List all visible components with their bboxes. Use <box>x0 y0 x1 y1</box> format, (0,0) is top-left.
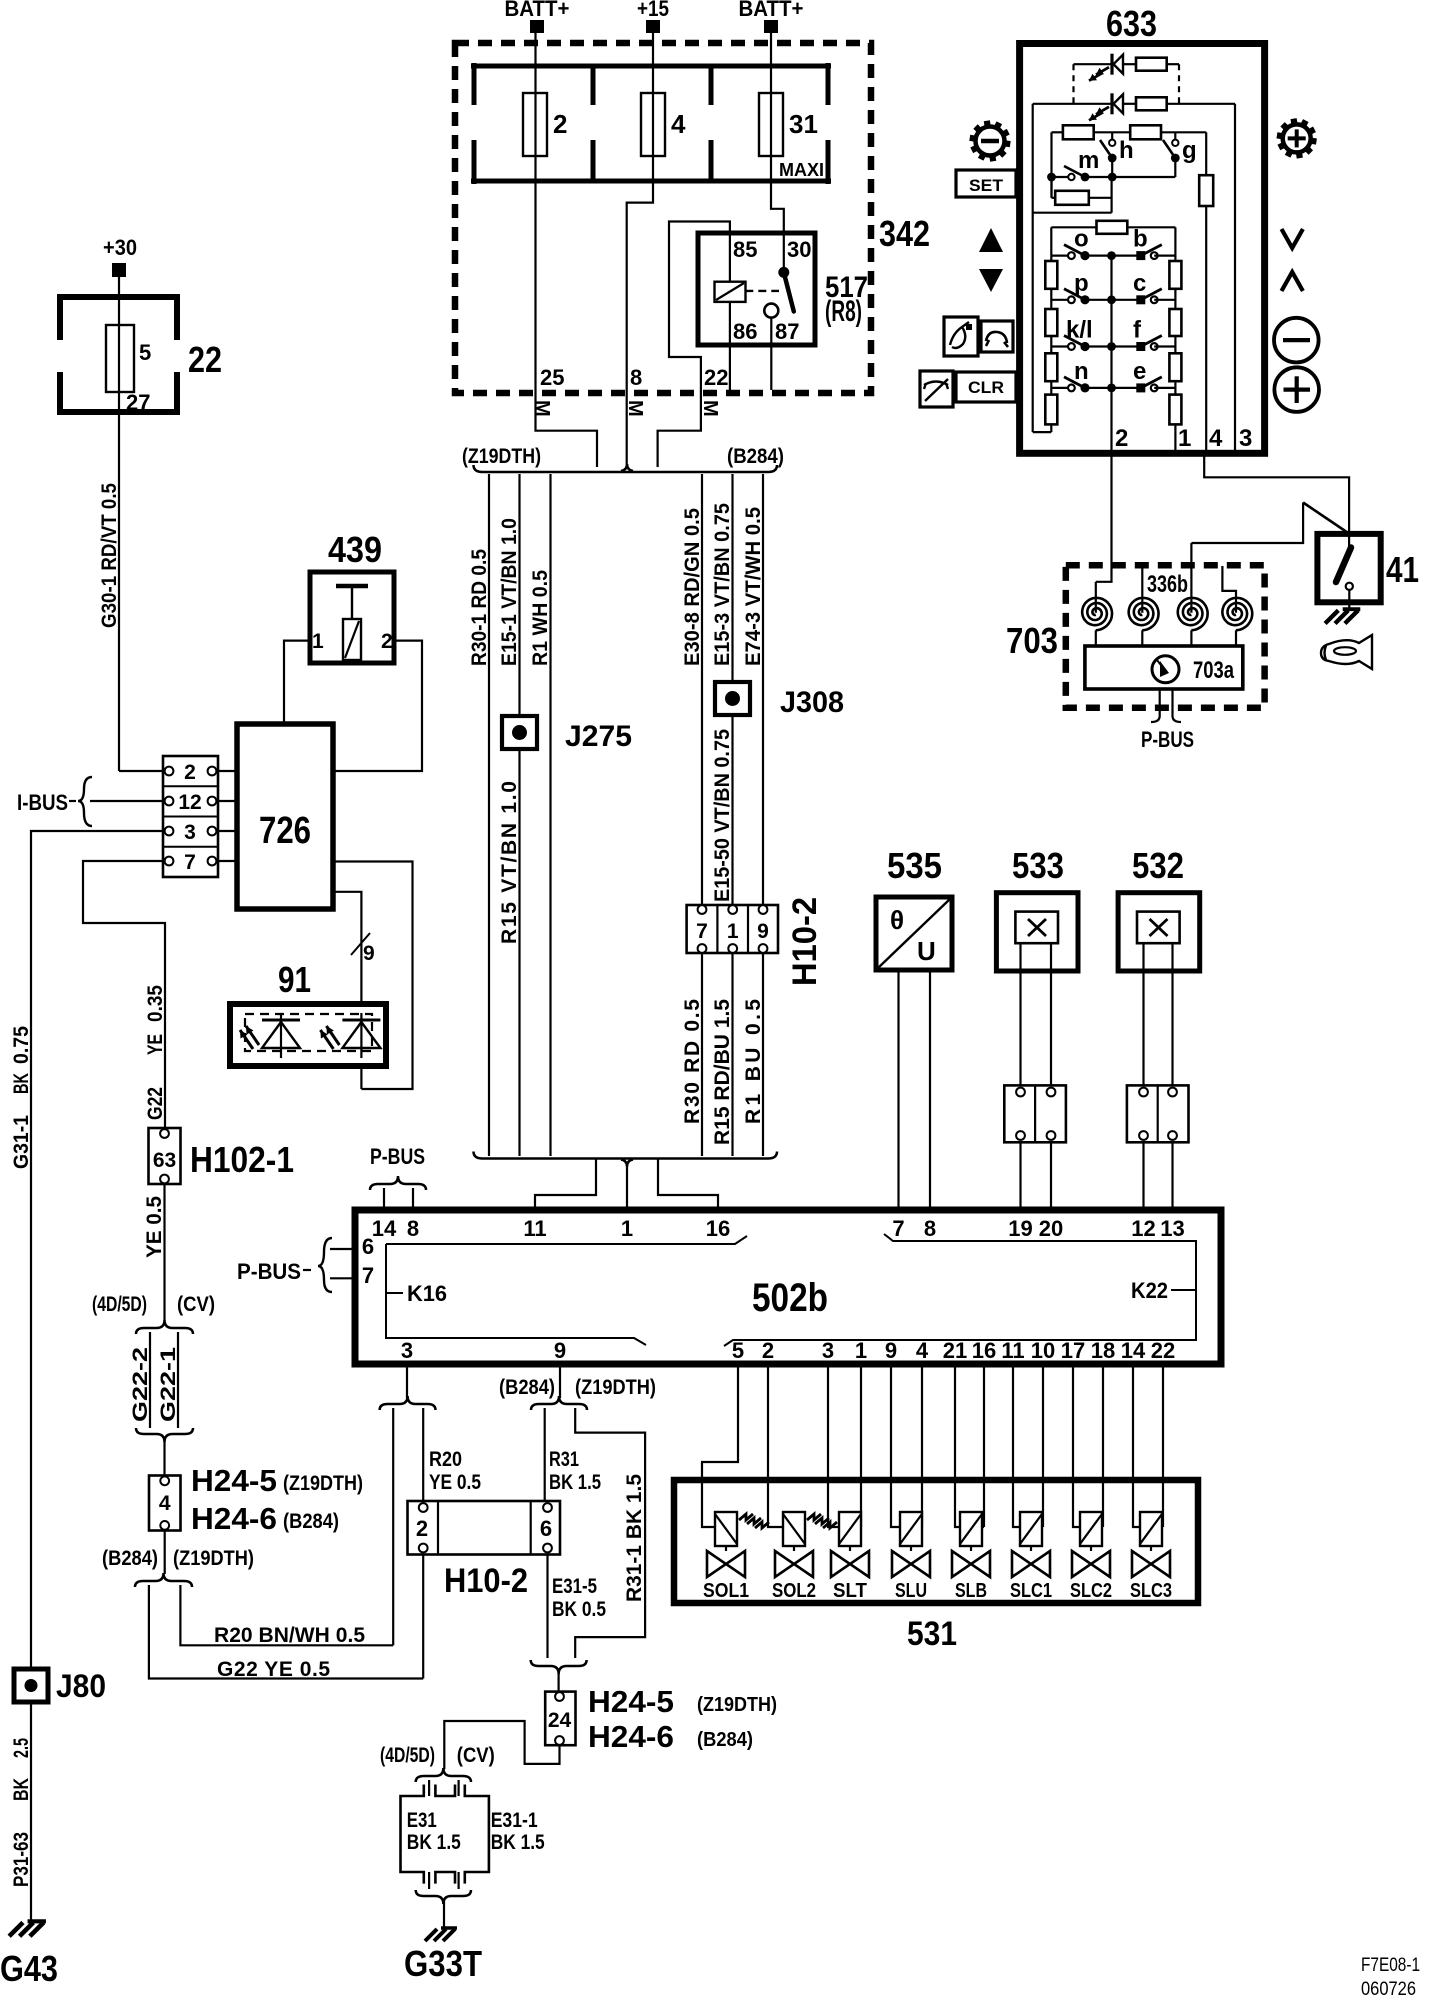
svg-text:533: 533 <box>1012 845 1064 886</box>
horn switch 41 <box>1317 534 1380 602</box>
svg-text:1: 1 <box>621 1216 633 1241</box>
svg-text:SLU: SLU <box>895 1580 927 1602</box>
svg-text:J80: J80 <box>56 1668 106 1704</box>
wires 535 to pins 7,8 <box>897 970 899 1210</box>
svg-text:22: 22 <box>1151 1338 1175 1363</box>
svg-text:BK 0.5: BK 0.5 <box>552 1598 606 1621</box>
dashed links between LED rows <box>1072 64 1074 104</box>
svg-text:12: 12 <box>178 791 201 814</box>
svg-text:24: 24 <box>548 1709 572 1732</box>
svg-text:G31-1: G31-1 <box>10 1115 33 1169</box>
svg-text:R30 RD 0.5: R30 RD 0.5 <box>681 999 704 1124</box>
junction J80 <box>14 1669 48 1702</box>
svg-text:(B284): (B284) <box>499 1376 555 1399</box>
svg-text:SLC2: SLC2 <box>1070 1580 1112 1602</box>
fuse 31 MAXI <box>759 93 783 156</box>
bus to 502b pin 11 <box>535 1159 596 1211</box>
svg-text:87: 87 <box>775 319 799 344</box>
svg-text:BATT+: BATT+ <box>739 0 804 21</box>
svg-text:0.75: 0.75 <box>10 1026 33 1064</box>
svg-text:BK 1.5: BK 1.5 <box>549 1471 601 1494</box>
switch o <box>1051 255 1068 257</box>
svg-text:J308: J308 <box>780 686 844 719</box>
circle plus <box>1274 367 1319 412</box>
svg-text:(CV): (CV) <box>457 1744 495 1767</box>
svg-text:(Z19DTH): (Z19DTH) <box>575 1376 656 1399</box>
svg-text:2: 2 <box>1115 425 1128 452</box>
labels (B284)/(Z19DTH) below pin 4 <box>164 1531 166 1575</box>
svg-text:R1 WH 0.5: R1 WH 0.5 <box>529 570 552 666</box>
svg-text:P31-63: P31-63 <box>10 1832 33 1887</box>
antenna symbol in 439 <box>336 584 368 589</box>
svg-text:3: 3 <box>184 821 196 844</box>
wire 439 pin2 to 726 right <box>333 641 422 771</box>
right rail / resistor to pin 4 <box>1205 132 1207 175</box>
svg-text:M: M <box>531 400 553 417</box>
svg-text:17: 17 <box>1061 1338 1085 1363</box>
spiral 3 <box>1178 598 1208 630</box>
svg-text:1: 1 <box>312 630 324 653</box>
right resistor ladder <box>1169 261 1181 289</box>
svg-text:12: 12 <box>1131 1216 1155 1241</box>
svg-text:(Z19DTH): (Z19DTH) <box>173 1547 254 1570</box>
relay coil <box>729 233 731 282</box>
svg-text:P-BUS: P-BUS <box>1141 727 1194 752</box>
ground G33T <box>441 1926 457 1930</box>
svg-text:2: 2 <box>762 1338 774 1363</box>
502b inner outline left (K16) <box>386 1236 747 1244</box>
relay 85 wire to pin 22 <box>658 222 730 468</box>
svg-text:G30-1 RD/VT 0.5: G30-1 RD/VT 0.5 <box>98 483 121 628</box>
svg-text:22: 22 <box>704 365 728 390</box>
svg-text:1: 1 <box>727 920 739 943</box>
svg-text:M: M <box>699 400 721 417</box>
svg-text:2.5: 2.5 <box>10 1738 33 1758</box>
svg-text:0.35: 0.35 <box>144 985 167 1022</box>
wire 91 bottom continues <box>360 1066 362 1089</box>
svg-text:21: 21 <box>943 1338 967 1363</box>
connector H10-2 (pins 7,1,9) <box>687 905 778 953</box>
solenoid SLC3 <box>1133 1364 1140 1527</box>
502b inner outline right (K22) <box>724 1234 1196 1346</box>
svg-text:R30-1 RD 0.5: R30-1 RD 0.5 <box>468 549 491 666</box>
svg-text:(4D/5D): (4D/5D) <box>380 1744 435 1767</box>
svg-text:(B284): (B284) <box>727 445 784 468</box>
wires J275 group <box>488 474 490 1156</box>
svg-text:E31-1: E31-1 <box>491 1809 538 1832</box>
svg-text:9: 9 <box>363 942 375 965</box>
svg-text:(B284): (B284) <box>102 1547 158 1570</box>
svg-text:R15 VT/BN 1.0: R15 VT/BN 1.0 <box>498 781 521 944</box>
svg-text:41: 41 <box>1386 549 1419 590</box>
svg-text:θ: θ <box>890 905 904 935</box>
fuse 5 in box 22 <box>118 297 120 325</box>
svg-text:(CV): (CV) <box>177 1293 215 1316</box>
svg-text:9: 9 <box>554 1338 566 1363</box>
svg-text:19: 19 <box>1008 1216 1032 1241</box>
svg-text:11: 11 <box>523 1216 546 1241</box>
transmission control module 502b <box>355 1210 1221 1364</box>
m-section resistor row <box>1052 131 1063 133</box>
left rail of m-section <box>1050 132 1052 198</box>
svg-text:b: b <box>1133 226 1148 253</box>
pin 3 stub and split <box>406 1364 408 1398</box>
svg-text:f: f <box>1133 317 1142 344</box>
icon gear minus <box>1004 143 1010 144</box>
svg-text:SET: SET <box>969 176 1004 195</box>
svg-text:c: c <box>1133 270 1146 297</box>
svg-text:G22-1: G22-1 <box>157 1347 180 1422</box>
connector block of 726 (pins 2,12,3,7) <box>163 756 218 877</box>
wire fuse31 to relay pin 30 <box>771 156 784 233</box>
svg-text:E15-1 VT/BN 1.0: E15-1 VT/BN 1.0 <box>498 518 521 666</box>
svg-text:25: 25 <box>540 365 564 390</box>
svg-text:n: n <box>1074 358 1089 385</box>
component box 22 (fuse holder) <box>57 294 180 300</box>
svg-text:BK: BK <box>10 1778 33 1801</box>
svg-text:P-BUS: P-BUS <box>237 1259 301 1284</box>
svg-text:H24-5: H24-5 <box>588 1684 674 1719</box>
svg-text:85: 85 <box>733 237 757 262</box>
svg-text:703a: 703a <box>1193 657 1235 684</box>
svg-text:531: 531 <box>907 1615 957 1653</box>
wire YE 0.5 below H102-1 <box>163 1184 165 1320</box>
svg-text:(Z19DTH): (Z19DTH) <box>697 1694 777 1716</box>
svg-text:+30: +30 <box>103 235 137 260</box>
svg-text:2: 2 <box>381 630 393 653</box>
wire R20 to H24 (left of split) <box>392 1408 394 1645</box>
svg-text:U: U <box>917 936 936 966</box>
wire fuse2 to pin 25 <box>534 156 536 181</box>
wire R20 YE 0.5 to H10-2 <box>422 1408 424 1503</box>
chevron up <box>1282 272 1303 291</box>
wire to pin 2 of 726 connector <box>119 770 163 772</box>
svg-text:18: 18 <box>1091 1338 1115 1363</box>
svg-text:R31: R31 <box>549 1448 579 1471</box>
svg-text:63: 63 <box>153 1149 176 1172</box>
svg-text:16: 16 <box>706 1216 730 1241</box>
keypad center rail (pin 2) <box>1110 256 1112 450</box>
icon gear plus <box>1310 141 1316 142</box>
solenoid pack 531 <box>674 1480 1198 1603</box>
switch h <box>1111 132 1113 139</box>
wire G22-1 <box>177 1332 179 1428</box>
relay contact 30/87 <box>778 267 789 278</box>
circle minus <box>1274 318 1319 363</box>
svg-text:P-BUS: P-BUS <box>370 1144 425 1169</box>
svg-text:2: 2 <box>416 1516 428 1541</box>
keypad matrix feed resistor <box>1051 226 1096 228</box>
svg-text:BATT+: BATT+ <box>505 0 570 21</box>
svg-text:8: 8 <box>924 1216 936 1241</box>
svg-text:7: 7 <box>184 851 196 874</box>
wire +30 to fuse box 22 <box>118 277 120 294</box>
svg-text:I-BUS: I-BUS <box>17 790 68 815</box>
svg-text:5: 5 <box>732 1338 744 1363</box>
svg-text:H24-6: H24-6 <box>588 1719 674 1754</box>
svg-text:13: 13 <box>1160 1216 1184 1241</box>
svg-text:YE: YE <box>144 1034 167 1055</box>
svg-text:+15: +15 <box>637 0 669 21</box>
wire I-BUS to pin 12 <box>90 800 165 802</box>
svg-text:g: g <box>1182 137 1197 164</box>
left resistor ladder <box>1045 261 1057 289</box>
wires J308 group <box>701 474 703 1156</box>
chevron V <box>1282 229 1303 248</box>
svg-text:YE 0.5: YE 0.5 <box>429 1471 481 1494</box>
svg-text:H10-2: H10-2 <box>444 1562 528 1600</box>
svg-text:3: 3 <box>1239 425 1252 452</box>
svg-text:535: 535 <box>887 845 942 886</box>
svg-text:(Z19DTH): (Z19DTH) <box>462 445 541 468</box>
svg-text:14: 14 <box>1121 1338 1146 1363</box>
633 pin 4 wire to horn switch 41 <box>1204 453 1349 548</box>
wire fuse4 to pin 8 <box>627 156 653 464</box>
633 inner frame <box>1032 104 1034 432</box>
svg-text:MAXI: MAXI <box>779 160 824 180</box>
P-BUS twisted pair below 703a <box>1159 689 1161 716</box>
ground below 41 <box>1343 607 1361 611</box>
svg-text:R20: R20 <box>429 1448 462 1471</box>
clock spring housing 703 (dashed) <box>1066 565 1265 708</box>
dashed housing 342 <box>455 43 871 393</box>
wire G22-2 <box>149 1332 151 1428</box>
switch n <box>1051 387 1068 389</box>
svg-text:30: 30 <box>787 237 811 262</box>
switch e <box>1112 387 1141 389</box>
spiral 1 <box>1082 598 1112 630</box>
SET button <box>956 170 1016 197</box>
arrow up <box>979 228 1003 252</box>
split brace below H102-1 <box>136 1320 193 1334</box>
solenoid SOL2 <box>768 1364 783 1527</box>
svg-text:(4D/5D): (4D/5D) <box>92 1293 147 1316</box>
switch p <box>1051 299 1068 301</box>
svg-text:8: 8 <box>630 365 642 390</box>
svg-text:7: 7 <box>892 1216 904 1241</box>
svg-text:4: 4 <box>159 1492 171 1515</box>
wire pin 7 to G22 YE 0.35 <box>83 861 165 1128</box>
m-section lower resistor <box>1050 177 1052 198</box>
svg-text:R1 BU 0.5: R1 BU 0.5 <box>742 999 765 1124</box>
wire E31-5 BK 0.5 <box>546 1555 548 1659</box>
svg-text:k/l: k/l <box>1066 317 1093 344</box>
module 703a <box>1085 646 1243 689</box>
svg-text:h: h <box>1119 137 1134 164</box>
connector H24-5/H24-6 pin 24 <box>545 1692 575 1746</box>
svg-text:BK 1.5: BK 1.5 <box>491 1831 545 1854</box>
connector H102-1 pin 63 <box>149 1128 181 1184</box>
svg-text:2: 2 <box>184 761 196 784</box>
svg-text:CLR: CLR <box>968 378 1004 397</box>
svg-text:4: 4 <box>916 1338 929 1363</box>
merge brace above H24 connector <box>136 1428 193 1442</box>
svg-text:7: 7 <box>696 920 708 943</box>
svg-text:8: 8 <box>407 1216 419 1241</box>
svg-text:E15-3 VT/BN 0.75: E15-3 VT/BN 0.75 <box>711 503 734 666</box>
wire R20 BN/WH 0.5 <box>180 1585 393 1645</box>
wire G22 YE 0.5 <box>149 1585 423 1679</box>
svg-text:9: 9 <box>757 920 769 943</box>
svg-text:86: 86 <box>733 319 757 344</box>
svg-text:E15-50 VT/BN 0.75: E15-50 VT/BN 0.75 <box>711 729 734 902</box>
pin 9 stub and split <box>559 1364 561 1398</box>
wire below H10-2 pin2 to G22 <box>422 1555 424 1679</box>
phone icon 2 (handset) <box>981 321 1013 352</box>
spiral 4 <box>1222 598 1252 630</box>
control module 726 <box>237 724 333 909</box>
merge brace to ground <box>416 1890 471 1904</box>
svg-text:3: 3 <box>401 1338 413 1363</box>
terminal +30 <box>112 263 126 277</box>
solenoid SLC2 <box>1073 1364 1080 1527</box>
solenoid SLC1 <box>1013 1364 1020 1527</box>
svg-text:(Z19DTH): (Z19DTH) <box>283 1472 363 1495</box>
svg-text:p: p <box>1074 270 1089 297</box>
merge brace above pin 24 <box>531 1660 587 1674</box>
connector H24-5 / H24-6 pin 4 <box>163 1438 165 1476</box>
relay 517 (R8) <box>698 233 815 345</box>
svg-text:1: 1 <box>855 1338 867 1363</box>
svg-text:91: 91 <box>278 959 311 1000</box>
svg-text:SLB: SLB <box>955 1580 987 1602</box>
solenoid SOL1 <box>702 1364 738 1527</box>
junction J308 <box>715 682 750 715</box>
svg-text:SLT: SLT <box>833 1580 867 1602</box>
svg-text:e: e <box>1133 358 1146 385</box>
svg-text:SLC3: SLC3 <box>1130 1580 1172 1602</box>
phone icon 3 (hang up) <box>920 371 953 407</box>
svg-text:E30-8 RD/GN 0.5: E30-8 RD/GN 0.5 <box>681 508 704 666</box>
wire spiral3 to switch 41 lever <box>1191 503 1303 544</box>
solenoid SLT <box>828 1364 839 1527</box>
arrow down <box>979 269 1003 292</box>
svg-text:633: 633 <box>1106 3 1157 44</box>
svg-text:R31-1 BK 1.5: R31-1 BK 1.5 <box>623 1474 646 1602</box>
wires 532 down <box>1142 971 1144 1085</box>
svg-text:060726: 060726 <box>1361 1979 1416 2000</box>
wire 726 to 91 loop (right) <box>333 862 413 1090</box>
633 pin 2 wire down to clock spring <box>1096 453 1112 582</box>
LED row 2 <box>1033 103 1112 105</box>
svg-text:336b: 336b <box>1147 571 1188 598</box>
svg-text:o: o <box>1074 226 1089 253</box>
phone icon 1 (voice) <box>944 317 978 356</box>
svg-text:E31-5: E31-5 <box>552 1575 597 1598</box>
fuse holder box in 342 <box>471 64 831 69</box>
svg-text:7: 7 <box>362 1263 374 1288</box>
svg-text:G33T: G33T <box>404 1943 482 1984</box>
wire 726 to 91 (with 9-wire slash) <box>333 892 361 1004</box>
fuse 4 <box>641 93 665 156</box>
wire pin24 to E31 <box>444 1721 559 1769</box>
feed wires into fuse box <box>534 33 536 93</box>
bus to 502b pin 16 <box>658 1159 718 1211</box>
svg-text:532: 532 <box>1132 845 1184 886</box>
wire R31-1 BK 1.5 loop <box>575 1408 645 1658</box>
switch g <box>1174 132 1176 139</box>
short links connector to 726 <box>216 770 237 772</box>
connector H10-2 (pins 2,6) <box>408 1501 561 1555</box>
wire R31 BK 1.5 <box>544 1408 546 1503</box>
LED row 1 <box>1074 63 1113 65</box>
svg-text:H24-5: H24-5 <box>191 1463 277 1498</box>
spiral 2 <box>1129 598 1159 630</box>
svg-text:2: 2 <box>553 109 567 139</box>
svg-text:1: 1 <box>1178 425 1191 452</box>
svg-text:J275: J275 <box>565 720 632 753</box>
svg-text:(R8): (R8) <box>825 295 862 328</box>
svg-text:H102-1: H102-1 <box>190 1139 294 1180</box>
fuse 2 <box>523 93 547 156</box>
svg-text:K22: K22 <box>1131 1278 1168 1303</box>
svg-text:10: 10 <box>1031 1338 1055 1363</box>
svg-text:4: 4 <box>671 109 686 139</box>
solenoid SLU <box>891 1364 900 1527</box>
CLR button <box>956 372 1016 402</box>
solenoid SLB <box>955 1364 960 1527</box>
svg-text:G22 YE 0.5: G22 YE 0.5 <box>217 1658 330 1681</box>
switch m row <box>1047 173 1056 182</box>
svg-text:22: 22 <box>188 339 222 380</box>
svg-text:E74-3 VT/WH 0.5: E74-3 VT/WH 0.5 <box>742 507 765 666</box>
wire J80 to ground G43 <box>30 1702 32 1921</box>
svg-text:H24-6: H24-6 <box>191 1501 277 1536</box>
E31 splice symbol <box>428 1780 430 1796</box>
svg-text:H10-2: H10-2 <box>786 897 824 986</box>
svg-text:6: 6 <box>362 1234 374 1259</box>
svg-text:K16: K16 <box>407 1281 447 1306</box>
svg-text:27: 27 <box>126 390 150 415</box>
svg-text:BK 1.5: BK 1.5 <box>407 1831 461 1854</box>
LED 1 of 91 <box>280 1013 282 1058</box>
svg-text:342: 342 <box>879 213 930 254</box>
switch k/l <box>1051 345 1068 347</box>
svg-text:5: 5 <box>139 340 151 365</box>
wire 439 pin1 to 726 <box>284 641 310 724</box>
svg-text:M: M <box>624 400 646 417</box>
svg-text:BK: BK <box>10 1073 33 1094</box>
svg-text:439: 439 <box>328 529 382 570</box>
svg-text:SLC1: SLC1 <box>1010 1580 1052 1602</box>
svg-text:(B284): (B284) <box>697 1729 753 1751</box>
svg-text:14: 14 <box>372 1216 397 1241</box>
switch b <box>1112 255 1141 257</box>
wire G30-1 RD/VT 0.5 down from 22 <box>118 412 120 771</box>
svg-text:9: 9 <box>885 1338 897 1363</box>
svg-text:11: 11 <box>1001 1338 1024 1363</box>
lower harness bus <box>474 1152 778 1159</box>
svg-text:G22-2: G22-2 <box>129 1347 152 1422</box>
svg-text:4: 4 <box>1209 425 1223 452</box>
switch c <box>1112 299 1141 301</box>
svg-text:(B284): (B284) <box>283 1510 339 1533</box>
switch f <box>1112 345 1141 347</box>
junction J275 <box>502 716 537 749</box>
wire pin 3 to G31-1 (left rail) <box>31 831 165 1670</box>
svg-text:SOL1: SOL1 <box>703 1580 749 1602</box>
svg-text:YE 0.5: YE 0.5 <box>143 1196 166 1258</box>
inline connector pair (533) <box>1004 1085 1066 1142</box>
9-wire slash mark <box>351 933 370 955</box>
bus to 502b pin 1 <box>626 1163 628 1210</box>
relay 86 wire <box>729 345 731 390</box>
svg-text:502b: 502b <box>752 1276 828 1320</box>
ground G43 <box>28 1919 46 1923</box>
svg-text:G22: G22 <box>144 1087 167 1120</box>
relay 87 wire <box>770 345 772 390</box>
horn icon <box>1321 635 1372 669</box>
